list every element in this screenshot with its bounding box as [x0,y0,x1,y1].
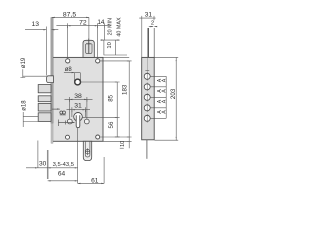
screw lines above plate [147,28,149,57]
svg-text:14: 14 [97,19,105,26]
svg-text:A: A [161,78,167,82]
dim 87,5 [52,16,89,18]
svg-text:31: 31 [74,103,82,110]
svg-text:ø18: ø18 [22,100,28,111]
fixing hole top-right [96,59,100,63]
deadbolt 2 [38,96,51,102]
svg-text:61: 61 [91,177,99,184]
top tab inner slot [86,44,93,54]
keyhole leader to chain [82,117,117,119]
svg-text:13: 13 [32,21,40,28]
lock body plate [52,57,103,141]
svg-text:20 MIN: 20 MIN [108,18,114,35]
cylinder screw hole left [67,119,72,124]
top tab screw [86,39,92,54]
ext line latch tip [45,27,47,76]
svg-text:40 MAX: 40 MAX [117,17,123,37]
crosshairs [146,72,148,123]
side hole leaders / A chain [150,76,166,118]
body bottom ext right [103,140,129,142]
dim 31 side [139,16,155,58]
leader d19 [20,69,46,77]
svg-text:10: 10 [107,42,113,48]
side plate [142,57,155,139]
side hole 4 [144,105,150,111]
svg-text:203: 203 [170,88,177,99]
svg-text:72: 72 [79,19,87,26]
bottom tab inner slot [85,141,90,157]
keyhole circle [74,113,83,122]
dim 30 / 3,5-43,5 [26,167,78,169]
svg-text:2: 2 [151,21,154,27]
dim 31 front [67,107,91,112]
dim 183 / 10 bottom [128,61,130,148]
latch bolt [47,76,54,83]
faceplate edge strip [51,18,53,124]
dim 2 side [149,26,157,28]
dim 38 [65,97,93,102]
leader d18 [23,112,38,127]
dim 203 [155,57,179,140]
svg-text:85: 85 [108,94,115,101]
d8 leader to chain [81,81,118,83]
fixing hole top-left [66,59,70,63]
body top ext right [103,56,129,58]
fixing hole bottom-left [66,135,70,139]
bottom fixing tab [83,141,91,160]
dim d8 [64,73,81,81]
bottom dims: ext lines [38,128,104,183]
deadbolt 4 [38,113,51,122]
dim 13 [25,29,58,31]
svg-text:56: 56 [108,121,115,128]
svg-text:38: 38 [74,93,82,100]
ext lines holes to dim [68,26,105,59]
ext lines 31 front [72,110,86,117]
small ticks below faceplate [58,120,74,127]
svg-text:31: 31 [145,11,153,18]
svg-text:A: A [161,89,167,93]
keyhole slot [76,115,80,127]
side hole 5 [144,115,150,121]
side hole 2 [144,84,150,90]
svg-text:64: 64 [58,171,66,178]
dim 72 / 14 chain [56,25,109,27]
svg-text:ø8: ø8 [65,67,73,73]
svg-text:30: 30 [39,161,47,168]
dim 61 [78,182,105,184]
svg-text:3,5-43,5: 3,5-43,5 [53,162,74,168]
deadbolt 1 [38,85,51,93]
svg-text:10: 10 [120,141,126,147]
hole leaders right [100,61,129,137]
svg-text:A: A [161,110,167,114]
cylinder screw hole right [84,119,89,124]
bottom tab screw [85,150,89,154]
door sheet section [100,40,127,56]
side hole 1 [144,73,150,79]
deadbolt 3 [38,104,51,112]
top fixing tab [83,40,94,57]
ext lines 38 [70,99,87,119]
hole d8 [75,79,81,85]
ext line screw axis [88,17,90,38]
small faceplate screw detail [60,111,63,114]
svg-text:183: 183 [121,84,128,95]
chain 85 / 56 [116,82,118,137]
labels A [157,78,167,114]
side plate centerline [146,58,148,73]
side hole 3 [144,94,150,100]
svg-text:87,5: 87,5 [63,11,76,18]
svg-text:A: A [161,99,167,103]
fixing hole bottom-right [96,135,100,139]
svg-text:ø19: ø19 [21,57,27,68]
dim 64 [48,180,78,182]
bottom pin [146,140,148,159]
